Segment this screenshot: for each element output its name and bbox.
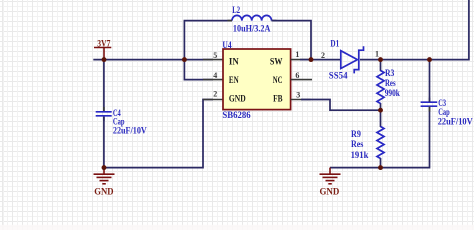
capacitor C3 plates bbox=[421, 102, 438, 106]
svg-text:3: 3 bbox=[296, 90, 300, 99]
wire ground bus right bbox=[330, 106, 430, 167]
pin 6 stub U4 NC bbox=[291, 79, 312, 81]
svg-text:2: 2 bbox=[213, 90, 217, 99]
pin 4 stub U4 EN bbox=[203, 79, 223, 81]
IC U4 SB6286 bbox=[223, 49, 291, 110]
svg-text:1: 1 bbox=[295, 50, 299, 59]
junction node IN/EN bbox=[182, 57, 187, 62]
pin stubs C3 bbox=[429, 98, 431, 112]
resistor R3 bbox=[380, 60, 382, 111]
diode D1 triangle bbox=[341, 51, 358, 69]
junction node SW/L2 bbox=[309, 57, 314, 62]
pin 3 stub U4 FB bbox=[291, 99, 311, 101]
inductor L2 coil bbox=[232, 15, 272, 20]
pin stubs C4 bbox=[103, 107, 105, 121]
junction node C3 top bbox=[427, 57, 432, 62]
ground symbol right bbox=[320, 168, 341, 184]
wire inductor top left vertical bbox=[184, 21, 232, 60]
svg-text:5: 5 bbox=[213, 51, 217, 60]
wire EN branch bbox=[184, 60, 213, 80]
resistor R9 bbox=[380, 110, 382, 167]
svg-text:SB6286: SB6286 bbox=[222, 111, 250, 121]
wire inductor top right vertical bbox=[272, 21, 312, 60]
svg-text:NC: NC bbox=[273, 76, 283, 86]
svg-text:IN: IN bbox=[229, 57, 239, 67]
junction node 3V7/C4 bbox=[102, 57, 107, 62]
svg-text:GND: GND bbox=[229, 95, 246, 105]
svg-text:D1: D1 bbox=[330, 39, 339, 49]
wire diode cathode to output bbox=[360, 0, 469, 60]
pin 1 stub U4 SW bbox=[291, 59, 311, 61]
svg-text:22uF/10V: 22uF/10V bbox=[113, 127, 147, 137]
svg-text:GND: GND bbox=[320, 187, 340, 197]
sheet edge band bottom bbox=[0, 225, 474, 230]
power port 3V7 lead bbox=[103, 48, 105, 60]
capacitor C4 plates bbox=[96, 112, 112, 116]
pin 5 stub U4 IN bbox=[203, 59, 223, 61]
svg-text:990k: 990k bbox=[385, 89, 401, 99]
power port 3V7 bar bbox=[94, 47, 111, 49]
svg-text:R3: R3 bbox=[385, 69, 395, 79]
svg-text:FB: FB bbox=[273, 95, 283, 105]
svg-text:SS54: SS54 bbox=[329, 72, 348, 82]
junction node diode/R3 bbox=[378, 57, 383, 62]
svg-text:GND: GND bbox=[94, 187, 113, 197]
svg-text:3V7: 3V7 bbox=[97, 39, 110, 49]
pin 2 stub U4 GND bbox=[203, 99, 223, 101]
pin stubs L2 bbox=[228, 20, 277, 22]
wire FB net bbox=[301, 100, 381, 111]
svg-text:191k: 191k bbox=[351, 151, 369, 161]
svg-text:SW: SW bbox=[270, 57, 283, 67]
svg-text:1: 1 bbox=[375, 50, 379, 59]
svg-text:10uH/3.2A: 10uH/3.2A bbox=[233, 24, 271, 34]
svg-text:6: 6 bbox=[295, 71, 299, 80]
svg-text:22uF/10V: 22uF/10V bbox=[438, 118, 473, 128]
svg-text:R9: R9 bbox=[351, 130, 361, 140]
svg-text:EN: EN bbox=[229, 76, 239, 86]
svg-text:L2: L2 bbox=[232, 6, 240, 16]
wire GND pin branch bbox=[104, 100, 213, 168]
wire SW to diode bbox=[300, 59, 341, 61]
wire main rail 3V7 left bbox=[93, 59, 213, 61]
ground symbol left bbox=[94, 168, 115, 184]
junction node FB/R3/R9 bbox=[378, 108, 383, 113]
junction node R9/ground bus bbox=[378, 165, 383, 170]
diode D1 schottky bar bbox=[354, 46, 363, 73]
svg-text:4: 4 bbox=[213, 71, 217, 80]
wire C3 top bbox=[429, 60, 431, 102]
junction node C4/ground left bbox=[102, 165, 107, 170]
svg-text:U4: U4 bbox=[222, 41, 231, 51]
svg-text:Res: Res bbox=[385, 79, 396, 89]
wire C4 bottom bbox=[103, 117, 105, 168]
wire C4 branch bbox=[103, 60, 105, 111]
svg-text:2: 2 bbox=[321, 51, 325, 60]
svg-text:Res: Res bbox=[351, 140, 364, 150]
